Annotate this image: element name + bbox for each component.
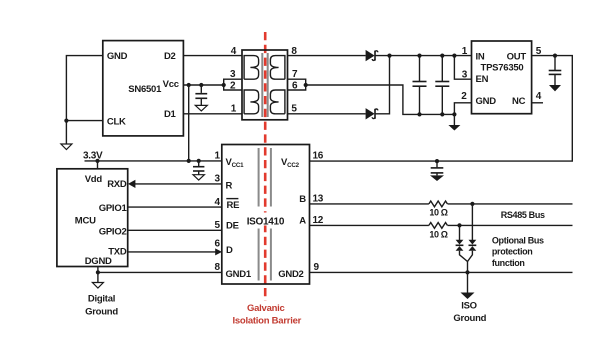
arrowhead into RXD [128, 180, 135, 188]
svg-text:protection: protection [492, 247, 533, 257]
svg-text:RE: RE [227, 200, 240, 211]
U3 internal isolation barrier lines [259, 148, 271, 281]
wire EN tee from input rail [454, 56, 471, 80]
iso ground symbol below U2 GND [448, 114, 460, 130]
svg-text:6: 6 [215, 239, 221, 250]
svg-text:DGND: DGND [85, 256, 112, 267]
capacitor C1 Vcc bypass [195, 85, 207, 105]
svg-text:SN6501: SN6501 [128, 84, 162, 95]
svg-text:CLK: CLK [107, 117, 126, 128]
arrowhead into D [215, 248, 222, 255]
wire U1 D2 to transformer pin 4 [183, 55, 242, 57]
svg-text:10 Ω: 10 Ω [429, 208, 447, 218]
capacitor C6 VCC2 bypass [431, 161, 444, 175]
svg-text:D2: D2 [164, 51, 176, 62]
svg-text:B: B [299, 194, 306, 205]
svg-text:3: 3 [230, 69, 236, 80]
junction Vcc at U1 [187, 83, 191, 87]
U3 left pin labels [226, 157, 252, 280]
transformer pin numbers [230, 46, 298, 115]
wire U1 CLK [66, 120, 102, 122]
svg-text:function: function [492, 258, 525, 268]
svg-text:Vdd: Vdd [85, 174, 103, 185]
U3 left pin numbers [215, 151, 221, 274]
wire MCU TXD to ISO1410 D [128, 251, 217, 253]
junction ground rail at U2 [452, 112, 456, 116]
red dashed galvanic isolation barrier line [264, 32, 267, 301]
svg-text:D: D [226, 245, 233, 256]
capacitor C3 filter [413, 54, 427, 117]
svg-text:2: 2 [461, 91, 467, 102]
transformer T1 body [242, 50, 288, 120]
svg-text:4: 4 [231, 46, 237, 57]
svg-text:Ground: Ground [453, 313, 486, 324]
schottky rectifier diode bottom [366, 108, 378, 119]
iso ground symbol below C6 [430, 175, 444, 181]
wire U2 OUT down to ISO1410 VCC2 [310, 56, 573, 162]
capacitor C5 at U2 output [549, 56, 562, 85]
svg-text:D1: D1 [164, 109, 177, 120]
svg-text:12: 12 [313, 215, 324, 226]
svg-text:GND: GND [107, 51, 128, 62]
wire transformer pins 7-6 centre tap bracket [288, 79, 306, 90]
iso ground symbol below C5 [549, 85, 561, 91]
U2 pin numbers [461, 46, 542, 102]
U3 right pin numbers [313, 151, 324, 274]
transformer primary winding upper (pins 4-3) [244, 56, 259, 80]
label Optional Bus protection function [492, 236, 544, 268]
capacitor C4 filter [435, 54, 449, 117]
transformer secondary winding lower (pins 6-5) [270, 90, 285, 114]
TVS diode left on A [456, 225, 468, 261]
wire Vcc down to 3.3V rail [188, 85, 190, 161]
label Galvanic Isolation Barrier [232, 303, 301, 326]
label Digital Ground [85, 294, 118, 318]
svg-text:4: 4 [215, 197, 221, 208]
junction diode outputs [387, 54, 391, 58]
svg-text:R: R [226, 180, 233, 191]
wire U1 D1 to transformer pin 1 [183, 113, 242, 115]
svg-text:ISO1410: ISO1410 [247, 216, 285, 227]
junction CLK/GND node [64, 119, 68, 123]
svg-text:8: 8 [215, 262, 221, 273]
wire U1 Vcc [183, 84, 223, 86]
wire TVS common to ISO ground [467, 262, 469, 293]
svg-text:7: 7 [292, 69, 298, 80]
wire MCU DGND stub [97, 267, 99, 283]
wire GND1 line [98, 271, 222, 273]
svg-text:GPIO2: GPIO2 [99, 227, 127, 238]
digital ground symbol below U1 [61, 144, 72, 150]
junction Vdd tap [95, 159, 99, 163]
wire U1 GND to left vertical [66, 56, 102, 144]
svg-text:MCU: MCU [75, 216, 96, 227]
wire bottom diode output up to top rail [375, 56, 390, 114]
wire transformer pin 5 to bottom diode [288, 113, 366, 115]
resistor R2 10 ohm on A [429, 223, 448, 229]
junction Vcc feed [187, 159, 191, 163]
svg-text:ISO: ISO [461, 300, 477, 311]
svg-text:5: 5 [215, 220, 221, 231]
junction GND2 to TVS [465, 270, 469, 274]
label RS485 Bus [501, 210, 545, 220]
wire ISO1410 R to MCU RXD [134, 183, 222, 185]
svg-text:OUT: OUT [507, 51, 527, 62]
3.3V supply rail [85, 160, 222, 162]
junction OUT cap tap [553, 54, 557, 58]
svg-text:3: 3 [215, 174, 221, 185]
IC U3 ISO1410 [222, 145, 310, 285]
wire GND2 line [310, 271, 573, 273]
svg-text:GPIO1: GPIO1 [99, 203, 128, 214]
svg-text:Ground: Ground [85, 306, 118, 317]
svg-text:Vcc: Vcc [163, 79, 179, 90]
U3 name ISO1410 [244, 213, 288, 228]
transformer core lines [262, 53, 267, 117]
ground symbol below C2 [193, 175, 204, 180]
svg-text:Galvanic: Galvanic [247, 303, 285, 314]
svg-text:EN: EN [476, 74, 489, 85]
wire secondary centre tap to ground rail [306, 85, 455, 114]
svg-text:A: A [299, 216, 306, 227]
svg-text:9: 9 [314, 262, 320, 273]
wire U2 NC stub [532, 102, 543, 104]
wire top rail diode output to TPS IN [375, 55, 472, 57]
svg-text:4: 4 [536, 91, 542, 102]
junction DGND [96, 270, 100, 274]
transformer primary winding lower (pins 2-1) [244, 90, 259, 114]
ground symbol below C1 [195, 105, 207, 111]
IC U1 SN6501 [103, 41, 184, 136]
wire MCU GPIO2 to ISO1410 DE [128, 229, 222, 231]
junction EN tee [452, 54, 456, 58]
wire transformer pin 8 to top diode [288, 55, 366, 57]
wire B line right part to RS485 bus [448, 203, 573, 205]
U3 right pin labels [278, 157, 306, 280]
label R1 value [429, 208, 447, 218]
svg-text:16: 16 [313, 151, 324, 162]
svg-text:RXD: RXD [107, 179, 127, 190]
svg-text:IN: IN [476, 51, 485, 62]
TVS diode right on B [468, 204, 477, 262]
wire U2 GND to ground rail [454, 103, 471, 115]
schottky rectifier diode top [366, 50, 378, 61]
svg-text:NC: NC [512, 96, 526, 107]
svg-text:5: 5 [291, 104, 297, 115]
svg-text:DE: DE [226, 221, 239, 232]
svg-text:Digital: Digital [88, 294, 115, 305]
iso ground symbol below TVS [461, 293, 475, 300]
junction Vcc to transformer centre tap [222, 83, 226, 87]
wire ISO1410 A line left part [310, 224, 429, 226]
digital ground symbol below MCU [92, 283, 103, 289]
svg-text:TPS76350: TPS76350 [481, 62, 524, 73]
svg-text:GND2: GND2 [278, 269, 303, 280]
junction VCC1 cap tap [197, 159, 201, 163]
junction A to TVS [457, 223, 461, 227]
svg-text:Optional Bus: Optional Bus [492, 236, 544, 246]
svg-text:1: 1 [215, 151, 221, 162]
svg-text:GND1: GND1 [226, 269, 252, 280]
svg-text:1: 1 [462, 46, 468, 57]
svg-text:RS485 Bus: RS485 Bus [501, 210, 545, 220]
svg-text:1: 1 [231, 104, 237, 115]
junction VCC2 cap tap [435, 159, 439, 163]
svg-text:10 Ω: 10 Ω [429, 229, 447, 239]
resistor R1 10 ohm on B [429, 201, 448, 207]
junction secondary centre tap [304, 83, 308, 87]
transformer secondary winding upper (pins 8-7) [270, 56, 285, 80]
svg-text:Isolation Barrier: Isolation Barrier [232, 315, 301, 326]
label 3.3V [83, 150, 103, 161]
junction B to TVS [470, 202, 474, 206]
wire Vdd stub into MCU [97, 161, 99, 169]
junction Vcc cap tap [199, 83, 203, 87]
capacitor C2 VCC1 bypass [193, 161, 204, 175]
label R2 value [429, 229, 447, 239]
label ISO Ground [453, 300, 486, 324]
wire A line right part to RS485 bus [448, 224, 573, 226]
wire MCU GPIO1 to ISO1410 RE [128, 206, 222, 208]
IC U2 TPS76350 [472, 41, 532, 114]
svg-text:13: 13 [313, 194, 324, 205]
wire transformer pins 3-2 centre tap bracket [224, 79, 242, 90]
svg-text:3.3V: 3.3V [83, 150, 103, 161]
MCU block [57, 169, 128, 267]
svg-text:GND: GND [476, 96, 497, 107]
wire ISO1410 B line left part [310, 203, 429, 205]
